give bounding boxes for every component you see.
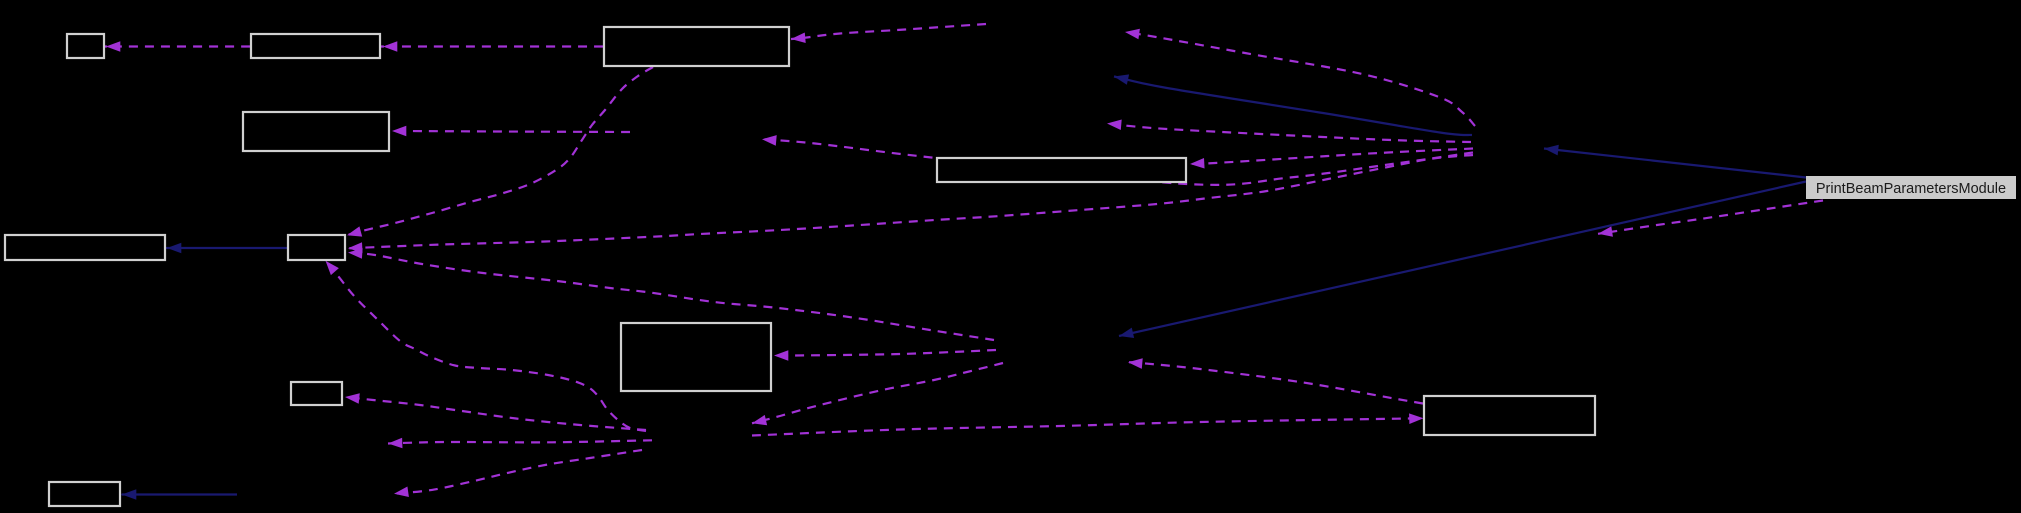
wire dashed center node->top hidden node xyxy=(1124,27,1475,126)
node11 box xyxy=(49,482,120,506)
wire dashed lower hidden node->node9 xyxy=(344,392,646,430)
wire dashed node3->node7 s-curve xyxy=(346,67,653,240)
node7 box xyxy=(288,235,345,260)
node8 box xyxy=(621,323,771,391)
wire dashed lower hidden node->node10 xyxy=(752,413,1424,436)
wire dashed lower hidden node->left hidden node xyxy=(388,438,652,449)
node5 box xyxy=(937,158,1186,182)
wire dashed hidden node->node3 xyxy=(791,24,986,44)
wire dashed lower hidden node->bottom hidden node xyxy=(393,450,642,499)
wire blue arrow center node->upper node xyxy=(1113,71,1472,135)
wire dashed center node->hidden node mid xyxy=(1107,118,1471,142)
wire blue arrow node7->node6 xyxy=(167,243,287,254)
wire dashed node3->node2 xyxy=(377,41,603,52)
node1 box xyxy=(67,34,104,58)
wire dashed lower hidden node->node7 bottom curve xyxy=(322,257,646,431)
wire dashed mid hidden node->node7 xyxy=(348,247,994,340)
wire dashed mid hidden node->lower hidden node xyxy=(751,363,1003,428)
node4 box xyxy=(243,112,389,151)
node PrintBeamParametersModule xyxy=(1806,176,2016,199)
wire blue arrow PrintBeamParametersModule->lower center node xyxy=(1118,182,1806,342)
wire dashed hidden node->node4 xyxy=(392,126,630,137)
node9 box xyxy=(291,382,342,405)
wire dashed center node->hidden node left of node5 xyxy=(762,134,1473,185)
wire dashed mid hidden node->node8 xyxy=(774,350,996,361)
wire dashed PrintBeamParametersModule->hidden node below xyxy=(1597,201,1823,240)
node6 box xyxy=(5,235,165,260)
wire blue arrow PrintBeamParametersModule->center node xyxy=(1543,143,1806,177)
wire dashed center node->node7 long xyxy=(348,155,1473,254)
node10 box xyxy=(1424,396,1595,435)
wire dashed node2->node1 xyxy=(105,41,250,52)
svg-text:PrintBeamParametersModule: PrintBeamParametersModule xyxy=(1816,181,2006,197)
node2 box xyxy=(251,34,380,58)
wire blue arrow to bottom-left node xyxy=(122,489,237,500)
wire dashed center node->node5 xyxy=(1190,149,1473,170)
wire dashed node10->mid hidden node xyxy=(1128,357,1423,403)
node3 box xyxy=(604,27,789,66)
